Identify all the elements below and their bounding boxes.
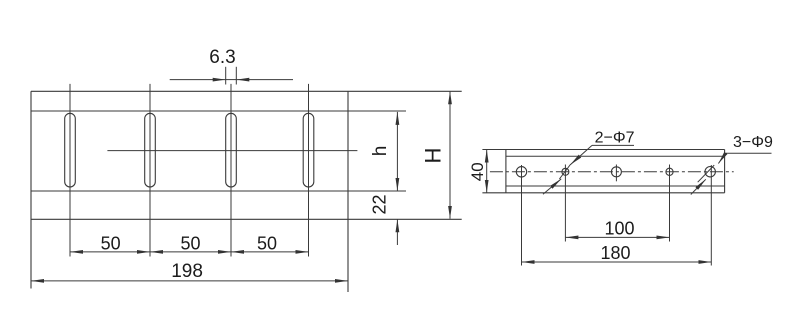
svg-text:H: H xyxy=(421,148,446,164)
svg-text:50: 50 xyxy=(257,233,277,253)
svg-text:180: 180 xyxy=(600,243,630,263)
svg-text:22: 22 xyxy=(370,194,390,214)
svg-text:50: 50 xyxy=(101,233,121,253)
svg-text:100: 100 xyxy=(604,218,634,238)
svg-text:50: 50 xyxy=(180,233,200,253)
svg-text:198: 198 xyxy=(171,261,203,282)
svg-text:h: h xyxy=(370,146,391,157)
svg-text:6.3: 6.3 xyxy=(209,47,235,68)
svg-text:40: 40 xyxy=(468,162,487,181)
svg-text:3−Φ9: 3−Φ9 xyxy=(733,134,773,151)
svg-text:2−Φ7: 2−Φ7 xyxy=(595,130,635,147)
